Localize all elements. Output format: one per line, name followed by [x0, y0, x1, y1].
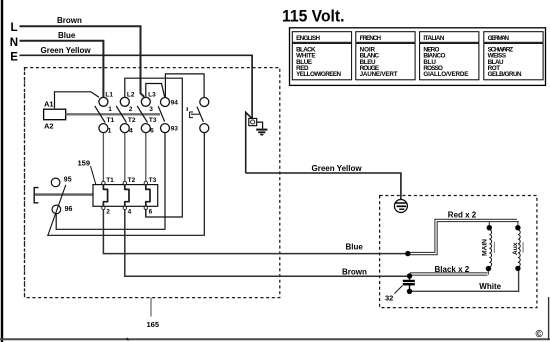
- svg-text:T3: T3: [149, 117, 157, 124]
- svg-text:6: 6: [149, 209, 153, 216]
- svg-text:A2: A2: [44, 122, 54, 131]
- svg-text:A1: A1: [44, 100, 54, 109]
- svg-text:Aux: Aux: [512, 242, 519, 255]
- svg-text:ENGLISH: ENGLISH: [296, 35, 320, 42]
- svg-text:3: 3: [149, 106, 153, 113]
- svg-text:1: 1: [108, 128, 112, 135]
- svg-text:4: 4: [128, 209, 132, 216]
- svg-text:4: 4: [129, 128, 133, 135]
- svg-text:MAIN: MAIN: [481, 239, 488, 256]
- svg-text:32: 32: [385, 294, 393, 303]
- svg-text:Blue: Blue: [58, 31, 76, 40]
- svg-text:Green Yellow: Green Yellow: [41, 46, 92, 55]
- svg-text:ITALIAN: ITALIAN: [423, 35, 444, 42]
- svg-text:165: 165: [147, 320, 160, 329]
- svg-text:Brown: Brown: [342, 268, 367, 277]
- svg-text:T2: T2: [128, 177, 136, 184]
- svg-text:94: 94: [171, 99, 179, 106]
- svg-text:T2: T2: [128, 117, 136, 124]
- svg-text:GIALLO/VERDE: GIALLO/VERDE: [423, 71, 468, 78]
- svg-text:115 Volt.: 115 Volt.: [282, 8, 345, 26]
- svg-text:Green Yellow: Green Yellow: [312, 164, 363, 173]
- svg-text:Blue: Blue: [346, 243, 364, 252]
- svg-text:95: 95: [64, 177, 72, 184]
- svg-text:1: 1: [108, 106, 112, 113]
- svg-text:96: 96: [65, 206, 73, 213]
- svg-text:159: 159: [78, 159, 91, 168]
- svg-text:T1: T1: [106, 177, 114, 184]
- svg-text:Brown: Brown: [57, 16, 82, 25]
- svg-text:L: L: [11, 22, 18, 34]
- svg-text:2: 2: [129, 106, 133, 113]
- svg-text:6: 6: [150, 128, 154, 135]
- svg-text:L3: L3: [148, 92, 156, 99]
- svg-text:FRENCH: FRENCH: [360, 35, 382, 42]
- svg-text:GELB/GRUN: GELB/GRUN: [488, 71, 522, 78]
- svg-text:YELLOW/GREEN: YELLOW/GREEN: [296, 71, 341, 78]
- svg-text:E: E: [10, 52, 18, 64]
- svg-text:2: 2: [106, 209, 110, 216]
- svg-text:T1: T1: [107, 117, 115, 124]
- svg-text:White: White: [479, 282, 501, 291]
- svg-text:L2: L2: [127, 92, 135, 99]
- svg-text:N: N: [10, 37, 18, 49]
- svg-text:©: ©: [536, 329, 544, 340]
- svg-text:Red x 2: Red x 2: [448, 210, 477, 219]
- svg-text:GERMAN: GERMAN: [488, 35, 510, 42]
- svg-text:L1: L1: [105, 92, 113, 99]
- svg-text:Black x 2: Black x 2: [435, 265, 470, 274]
- svg-text:JAUNE/VERT: JAUNE/VERT: [360, 71, 398, 78]
- svg-text:T3: T3: [149, 177, 157, 184]
- svg-text:93: 93: [171, 126, 179, 133]
